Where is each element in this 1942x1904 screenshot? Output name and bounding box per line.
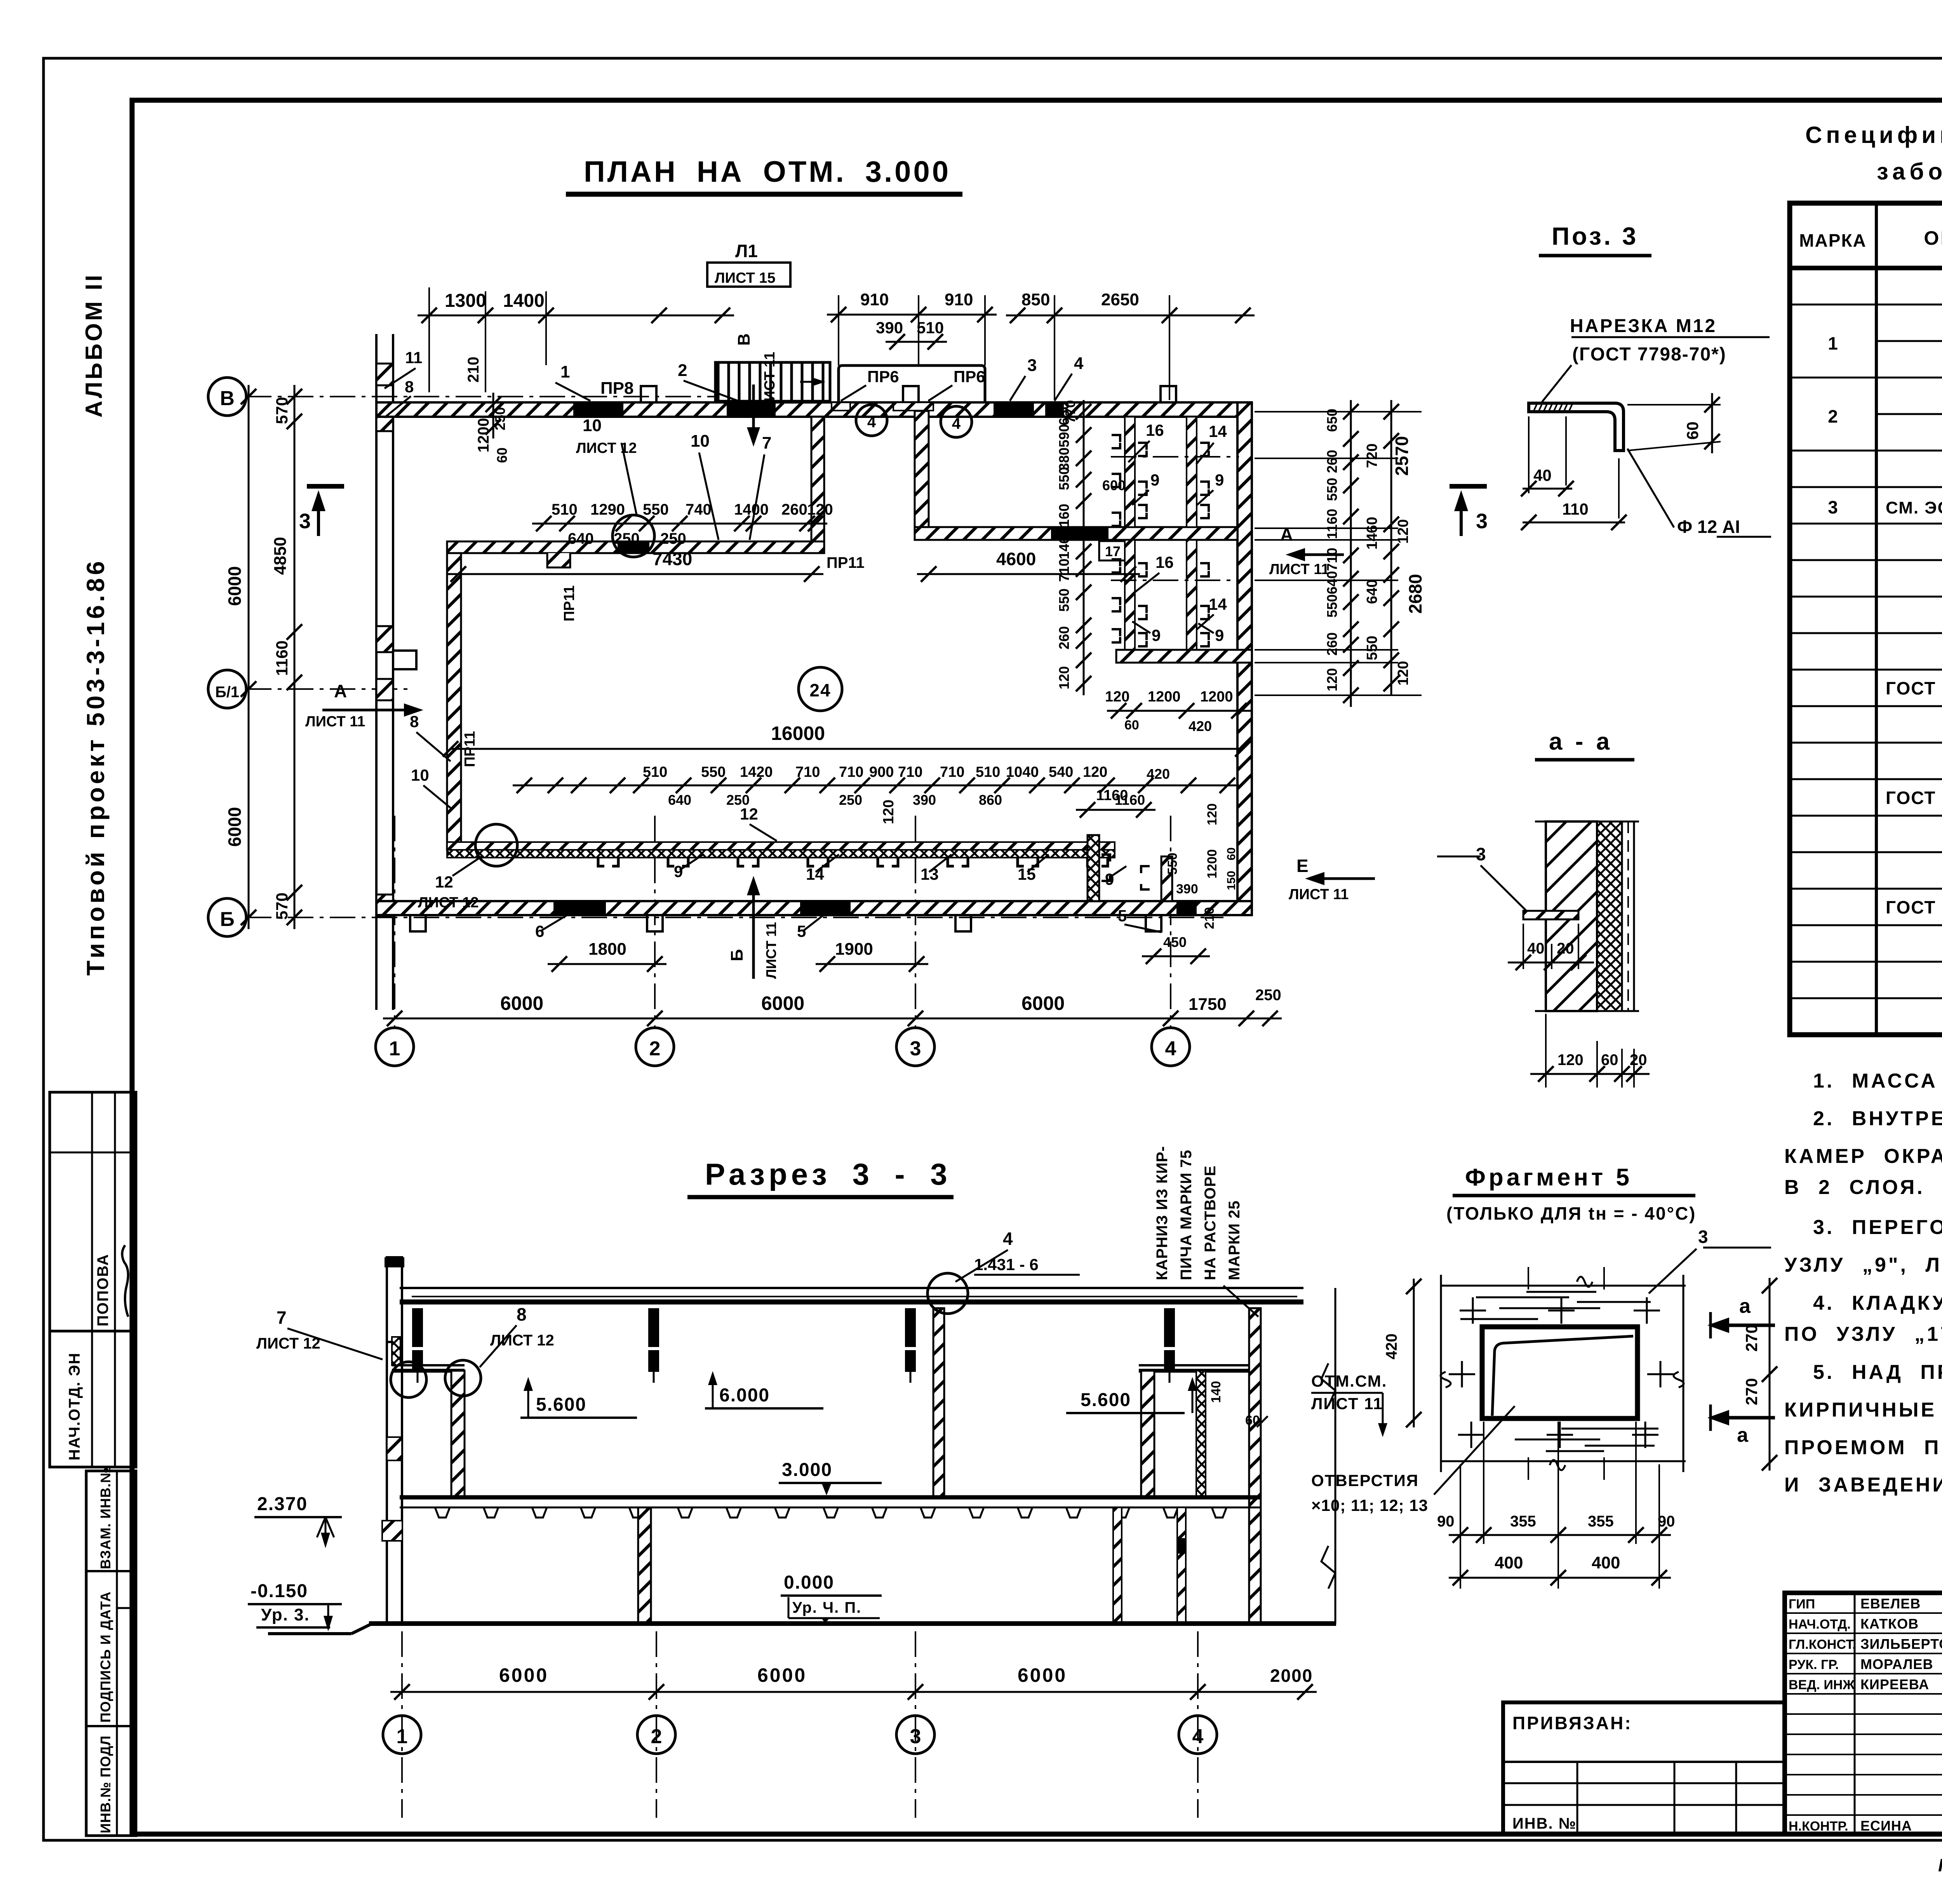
- svg-text:120: 120: [1056, 666, 1072, 689]
- svg-text:710: 710: [940, 764, 964, 780]
- fixing square bottom wall a: [410, 915, 426, 931]
- svg-text:6000: 6000: [224, 566, 245, 606]
- svg-text:1200: 1200: [1148, 689, 1181, 705]
- svg-text:260: 260: [781, 501, 807, 518]
- svg-text:270: 270: [1742, 1324, 1761, 1352]
- svg-text:6: 6: [535, 922, 544, 940]
- signature squiggle Popova: [122, 1245, 128, 1317]
- svg-text:850: 850: [1021, 290, 1050, 309]
- chamber centerline lower: [1111, 580, 1239, 581]
- svg-text:КИРПИЧНЫЕ ПЕРЕМЫЧКИ - В ЧЕ: КИРПИЧНЫЕ ПЕРЕМЫЧКИ - В ЧЕТЫРЕХ ШВАХ НАД: [1784, 1399, 1942, 1421]
- 5.600 platform right: [1139, 1364, 1249, 1366]
- label 17 box: [1099, 541, 1130, 560]
- svg-text:СМ. ЭСКИЗ, ПОЗ.3: СМ. ЭСКИЗ, ПОЗ.3: [1886, 498, 1942, 517]
- right outer wall: [1237, 402, 1252, 915]
- svg-text:ЛИСТ 11: ЛИСТ 11: [1269, 561, 1329, 578]
- svg-text:ПРОЕМОМ ПРОЛОЖИТЬ 2Ф8АI С: ПРОЕМОМ ПРОЛОЖИТЬ 2Ф8АI С КРЮКАМИ НА КОН…: [1784, 1436, 1942, 1459]
- a-a bottom cap line: [1535, 1010, 1639, 1012]
- chamber mid horizontal wall: [915, 527, 1237, 540]
- svg-text:1200: 1200: [1205, 849, 1220, 879]
- right outer wall in section: [1249, 1308, 1261, 1624]
- svg-text:710: 710: [839, 764, 863, 780]
- svg-text:1200: 1200: [1200, 689, 1233, 705]
- svg-text:710: 710: [1056, 559, 1072, 582]
- svg-text:НА РАСТВОРЕ: НА РАСТВОРЕ: [1202, 1165, 1219, 1280]
- svg-text:1460: 1460: [1364, 517, 1380, 550]
- svg-text:420: 420: [1189, 718, 1212, 734]
- svg-text:3: 3: [1828, 497, 1838, 517]
- svg-text:270: 270: [1742, 1378, 1761, 1405]
- svg-text:510: 510: [643, 764, 667, 780]
- svg-text:540: 540: [1049, 764, 1073, 780]
- svg-text:А: А: [1280, 524, 1293, 545]
- svg-text:60: 60: [494, 447, 510, 463]
- svg-text:ПР11: ПР11: [827, 554, 865, 571]
- svg-text:20: 20: [1630, 1051, 1647, 1069]
- chamber partition C upper: [1187, 417, 1197, 527]
- svg-text:ЛИСТ 12: ЛИСТ 12: [576, 440, 637, 456]
- right dim extension lines: [1255, 411, 1398, 412]
- svg-text:5.600: 5.600: [1081, 1390, 1131, 1410]
- svg-text:1: 1: [560, 362, 570, 381]
- svg-text:Ф 12 АI: Ф 12 АI: [1677, 517, 1740, 537]
- section cut mark 3 (right, up arrow): [1450, 484, 1487, 489]
- svg-text:6000: 6000: [500, 992, 543, 1014]
- section axis circle 2: [637, 1716, 675, 1754]
- svg-text:400: 400: [1495, 1553, 1523, 1572]
- svg-text:20: 20: [1557, 940, 1574, 957]
- svg-text:-0.150: -0.150: [251, 1581, 308, 1601]
- spec table column lines: [1875, 203, 1878, 1035]
- axis circle 1: [376, 1028, 414, 1066]
- svg-text:400: 400: [1592, 1553, 1620, 1572]
- right side break marks: [1321, 1363, 1335, 1589]
- svg-text:Разрез 3 - 3: Разрез 3 - 3: [705, 1157, 951, 1191]
- svg-text:120: 120: [807, 501, 833, 518]
- svg-text:3: 3: [1698, 1227, 1708, 1247]
- svg-text:10: 10: [691, 432, 710, 451]
- svg-text:3. ПЕРЕГОРОДКИ ТОЛЩИНОЙ 120М: 3. ПЕРЕГОРОДКИ ТОЛЩИНОЙ 120ММ АРМИРОВАТЬ…: [1813, 1216, 1942, 1239]
- fragment break squiggles: [1550, 1277, 1592, 1470]
- row 1/2 mid lines in oboznachenie: [1876, 340, 1942, 342]
- section axis circle 1: [383, 1716, 421, 1754]
- svg-text:КАТКОВ: КАТКОВ: [1860, 1616, 1919, 1632]
- svg-text:210: 210: [1202, 907, 1217, 929]
- svg-text:210: 210: [465, 357, 482, 383]
- svg-text:150: 150: [1225, 871, 1238, 890]
- svg-text:16: 16: [1146, 421, 1164, 439]
- svg-text:2680: 2680: [1405, 574, 1425, 614]
- a-a wall brick layer: [1546, 821, 1597, 1011]
- svg-text:ЛИСТ 15: ЛИСТ 15: [715, 270, 776, 286]
- svg-text:24: 24: [809, 680, 831, 700]
- inner wall upper horizontal: [447, 541, 824, 553]
- svg-text:1460: 1460: [1056, 528, 1072, 559]
- roof support blobs at columns: [412, 1308, 423, 1347]
- svg-text:550: 550: [1056, 588, 1072, 612]
- chamber teeth marks: [1138, 443, 1147, 456]
- svg-text:1420: 1420: [740, 764, 773, 780]
- svg-text:ЗИЛЬБЕРТОВ: ЗИЛЬБЕРТОВ: [1860, 1636, 1942, 1652]
- bracket angle piece: [1529, 403, 1624, 451]
- svg-text:9: 9: [1150, 471, 1159, 489]
- svg-text:а: а: [1739, 1295, 1751, 1317]
- svg-text:7430: 7430: [653, 549, 692, 569]
- svg-text:90: 90: [1437, 1513, 1455, 1530]
- floor ribs: [435, 1507, 450, 1518]
- inner vertical wall (room right): [811, 417, 824, 541]
- svg-text:250: 250: [614, 530, 640, 547]
- svg-text:8: 8: [405, 378, 414, 396]
- svg-text:910: 910: [945, 290, 973, 309]
- left wall door ledge at axis B/1: [393, 651, 416, 669]
- small wall piece left of platform: [392, 1337, 400, 1365]
- svg-text:МОРАЛЕВ: МОРАЛЕВ: [1860, 1656, 1933, 1672]
- svg-text:2650: 2650: [1101, 290, 1139, 309]
- svg-text:9: 9: [1215, 471, 1224, 489]
- svg-text:3: 3: [299, 510, 311, 533]
- svg-text:120: 120: [1324, 668, 1340, 691]
- svg-text:ЛИСТ 11: ЛИСТ 11: [763, 922, 779, 979]
- svg-text:550: 550: [1364, 636, 1380, 660]
- svg-text:ЛИСТ 11: ЛИСТ 11: [1311, 1394, 1383, 1413]
- room number circle 24: [799, 667, 842, 711]
- svg-text:6000: 6000: [761, 992, 804, 1014]
- top outer wall: [376, 402, 1252, 417]
- svg-text:4: 4: [1165, 1037, 1176, 1060]
- left wall below parapet: [386, 1342, 388, 1624]
- svg-text:250: 250: [660, 530, 686, 547]
- section axis circle 3: [896, 1716, 934, 1754]
- svg-text:10: 10: [583, 416, 602, 435]
- svg-text:3: 3: [1476, 510, 1488, 533]
- title block outline: [1785, 1593, 1942, 1834]
- leader from cornice note: [1223, 1286, 1258, 1317]
- margin stamp table 2 (inv no / podpis): [86, 1471, 136, 1836]
- svg-text:ЛИСТ 11: ЛИСТ 11: [305, 714, 365, 730]
- fixing square bottom wall b: [647, 915, 663, 931]
- svg-text:2: 2: [651, 1725, 662, 1748]
- svg-text:ЛИСТ 12: ЛИСТ 12: [490, 1332, 554, 1349]
- lintel PR8 no.2: [727, 402, 776, 417]
- section axis circle 4: [1179, 1716, 1217, 1754]
- bottom-right chamber wall a: [1088, 835, 1099, 901]
- svg-text:ПР8: ПР8: [600, 379, 633, 398]
- svg-text:860: 860: [979, 792, 1002, 808]
- svg-text:ЕВЕЛЕВ: ЕВЕЛЕВ: [1860, 1596, 1921, 1612]
- svg-text:Н.КОНТР.: Н.КОНТР.: [1789, 1819, 1848, 1834]
- svg-text:4: 4: [1074, 354, 1084, 373]
- lintel 4 in mid wall: [1051, 527, 1108, 540]
- svg-text:заборных камер воздуха: заборных камер воздуха: [1877, 158, 1942, 184]
- svg-text:3: 3: [1476, 844, 1486, 864]
- svg-text:600: 600: [1102, 477, 1126, 493]
- svg-text:2: 2: [649, 1037, 661, 1060]
- svg-text:640: 640: [568, 530, 594, 547]
- svg-text:420: 420: [1383, 1333, 1400, 1359]
- svg-text:ГОСТ 22950- 78: ГОСТ 22950- 78: [1886, 788, 1942, 808]
- svg-text:НАЧ.ОТД.: НАЧ.ОТД.: [1789, 1617, 1851, 1632]
- a-a insulation layer (crosshatch): [1597, 821, 1622, 1011]
- svg-text:4: 4: [1192, 1725, 1204, 1748]
- svg-text:140: 140: [1209, 1381, 1223, 1403]
- svg-text:Б: Б: [727, 949, 747, 961]
- svg-text:8: 8: [517, 1304, 527, 1324]
- svg-text:ПР6: ПР6: [867, 367, 899, 386]
- svg-text:6000: 6000: [757, 1664, 807, 1686]
- svg-text:16000: 16000: [771, 722, 825, 744]
- svg-text:ОБОЗНАЧЕНИЕ: ОБОЗНАЧЕНИЕ: [1924, 227, 1942, 249]
- svg-text:В 2 СЛОЯ.: В 2 СЛОЯ.: [1784, 1176, 1925, 1199]
- inner vertical wall left: [447, 553, 461, 850]
- lintel no.6 (bottom): [553, 901, 606, 915]
- svg-text:КАМЕР ОКРАСИТЬ ВОДОЭМУЛЬСИ: КАМЕР ОКРАСИТЬ ВОДОЭМУЛЬСИОННОЙ КРАСКОЙ: [1784, 1145, 1942, 1168]
- section roof slab lines: [400, 1287, 1303, 1289]
- svg-text:1800: 1800: [588, 940, 626, 959]
- left outer wall: [375, 334, 378, 1010]
- axis B (letter Б) horizontal: [246, 917, 1223, 918]
- svg-text:9: 9: [1105, 870, 1114, 888]
- svg-text:Б: Б: [220, 908, 234, 931]
- svg-text:250: 250: [1255, 987, 1281, 1004]
- svg-text:640: 640: [668, 792, 691, 808]
- svg-text:НАЧ.ОТД. ЭН: НАЧ.ОТД. ЭН: [66, 1352, 83, 1460]
- svg-text:ГИП: ГИП: [1789, 1597, 1815, 1612]
- fragment brick course dashes bottom: [1534, 1417, 1627, 1419]
- svg-text:0.000: 0.000: [784, 1572, 834, 1593]
- svg-text:450: 450: [1163, 934, 1187, 950]
- svg-text:120: 120: [1083, 764, 1107, 780]
- svg-text:250: 250: [726, 792, 750, 808]
- svg-text:×10; 11; 12; 13: ×10; 11; 12; 13: [1311, 1496, 1428, 1514]
- lintel no.5 (bottom): [800, 901, 851, 915]
- svg-text:а: а: [1737, 1424, 1749, 1446]
- svg-text:5. НАД ПРОЕМАМИ МЕНЕЕ 9: 5. НАД ПРОЕМАМИ МЕНЕЕ 900 ММ УСТРОИТЬ АР…: [1813, 1361, 1942, 1384]
- svg-text:110: 110: [1562, 500, 1589, 518]
- 5.600 platform left: [392, 1364, 465, 1366]
- axis V (letter B) horizontal: [246, 396, 738, 397]
- fixing square bottom wall c: [955, 915, 971, 931]
- svg-text:1: 1: [397, 1725, 408, 1748]
- svg-text:Типовой проект 503-3-16.86: Типовой проект 503-3-16.86: [82, 558, 110, 976]
- svg-text:ЛИСТ 11: ЛИСТ 11: [1289, 886, 1349, 903]
- svg-text:17: 17: [1105, 543, 1121, 559]
- svg-text:3: 3: [910, 1725, 921, 1748]
- svg-text:1040: 1040: [1006, 764, 1039, 780]
- svg-text:120: 120: [1205, 803, 1220, 825]
- svg-text:ВЕД. ИНЖ: ВЕД. ИНЖ: [1789, 1678, 1855, 1692]
- svg-text:ПО УЗЛУ „17" СЕРИИ 1. 431: ПО УЗЛУ „17" СЕРИИ 1. 431 - 6.: [1784, 1323, 1942, 1345]
- svg-text:510: 510: [976, 764, 1000, 780]
- partition under 5.600 right: [1141, 1371, 1154, 1497]
- chamber centerline upper: [1111, 456, 1239, 458]
- lintel in inner wall: [618, 541, 649, 553]
- fragment opening rect: [1482, 1327, 1637, 1418]
- svg-text:910: 910: [860, 290, 889, 309]
- svg-text:720: 720: [1364, 444, 1380, 468]
- a-a top cap line: [1535, 821, 1639, 823]
- fixing square bottom wall d: [1146, 915, 1161, 931]
- svg-text:9: 9: [674, 862, 683, 881]
- svg-text:ПР6: ПР6: [954, 367, 985, 386]
- chamber partition B lower: [1125, 540, 1135, 650]
- svg-text:9: 9: [1152, 626, 1161, 644]
- svg-text:6000: 6000: [224, 807, 245, 847]
- svg-text:6000: 6000: [1018, 1664, 1067, 1686]
- svg-text:ПЛАН НА ОТМ. 3.000: ПЛАН НА ОТМ. 3.000: [584, 155, 951, 188]
- ground line: [369, 1621, 1336, 1626]
- svg-text:1. МАССА ДАНА ОДНОГО МЕТРА: 1. МАССА ДАНА ОДНОГО МЕТРА.: [1813, 1070, 1942, 1092]
- svg-text:ОТВЕРСТИЯ: ОТВЕРСТИЯ: [1311, 1471, 1419, 1490]
- svg-text:5: 5: [797, 922, 806, 940]
- svg-text:60: 60: [1124, 718, 1139, 733]
- svg-text:14: 14: [1209, 422, 1227, 440]
- axis 4 vertical: [1170, 816, 1171, 1028]
- fragment cross marks: [1460, 1297, 1486, 1324]
- detail circle 12 list 12: [475, 824, 517, 866]
- svg-text:550: 550: [1324, 478, 1340, 501]
- svg-text:ГЛ.КОНСТ.: ГЛ.КОНСТ.: [1789, 1637, 1856, 1652]
- left parapet column: [387, 1257, 402, 1342]
- svg-text:1: 1: [389, 1037, 400, 1060]
- svg-text:60: 60: [1225, 848, 1238, 860]
- axis circle 2: [636, 1028, 674, 1066]
- svg-text:16: 16: [1155, 553, 1174, 571]
- svg-text:6000: 6000: [499, 1664, 548, 1686]
- detail circle at parapet: [391, 1362, 426, 1398]
- svg-text:4850: 4850: [271, 537, 290, 575]
- svg-text:420: 420: [1147, 766, 1170, 782]
- svg-text:8: 8: [410, 712, 419, 731]
- svg-text:ПИЧА МАРКИ 75: ПИЧА МАРКИ 75: [1178, 1150, 1195, 1280]
- svg-text:120: 120: [881, 800, 897, 824]
- dim 40: [1528, 416, 1530, 493]
- svg-text:710: 710: [1324, 548, 1340, 571]
- svg-text:550: 550: [701, 764, 726, 780]
- svg-text:1900: 1900: [835, 940, 873, 959]
- axis circle B: [208, 898, 246, 936]
- svg-text:570: 570: [273, 397, 291, 424]
- svg-text:ПР11: ПР11: [561, 585, 578, 621]
- partition under 5.600 left: [451, 1371, 465, 1497]
- svg-text:Л1: Л1: [735, 241, 758, 261]
- svg-text:710: 710: [898, 764, 922, 780]
- fixing square on top wall a: [641, 386, 656, 402]
- svg-text:2: 2: [1828, 406, 1838, 426]
- fragment outer dim box: [1441, 1285, 1686, 1287]
- svg-text:900: 900: [869, 764, 894, 780]
- svg-text:7: 7: [762, 433, 771, 453]
- svg-text:3.000: 3.000: [782, 1460, 832, 1480]
- svg-text:ГОСТ 8486- 66**: ГОСТ 8486- 66**: [1886, 897, 1942, 917]
- circled 4 a: [856, 405, 887, 436]
- tambour pad b: [893, 402, 933, 411]
- svg-text:ЕСИНА: ЕСИНА: [1860, 1818, 1912, 1834]
- svg-text:260: 260: [1324, 632, 1340, 656]
- detail circle at platform left: [445, 1360, 481, 1396]
- svg-text:АЛЬБОМ II: АЛЬБОМ II: [81, 273, 107, 418]
- svg-text:5.600: 5.600: [536, 1394, 586, 1415]
- svg-text:390: 390: [876, 318, 903, 337]
- axis 3 vertical: [915, 816, 916, 1028]
- lower partitions: [638, 1507, 651, 1624]
- svg-text:Ур. Ч. П.: Ур. Ч. П.: [792, 1599, 861, 1616]
- svg-text:И ЗАВЕДЕНИЕМ ЗА ГРАНИ ОПОР: И ЗАВЕДЕНИЕМ ЗА ГРАНИ ОПОР НЕ МЕНЕЕ 250 …: [1784, 1474, 1942, 1496]
- svg-text:550: 550: [1324, 594, 1340, 618]
- svg-text:260: 260: [1324, 450, 1340, 473]
- a-a wooden plug bar: [1523, 911, 1578, 919]
- circled 4 b: [941, 406, 972, 437]
- svg-text:12: 12: [435, 873, 453, 891]
- svg-text:ЛИСТ 12: ЛИСТ 12: [256, 1335, 320, 1352]
- svg-text:1290: 1290: [590, 501, 625, 518]
- svg-text:1400: 1400: [503, 291, 545, 311]
- spec table header bottom line: [1790, 266, 1942, 270]
- svg-text:1: 1: [1828, 333, 1838, 353]
- svg-text:ПОДПИСЬ И ДАТА: ПОДПИСЬ И ДАТА: [97, 1591, 113, 1723]
- axis B/1 horizontal: [246, 688, 412, 690]
- svg-text:1300: 1300: [445, 291, 486, 311]
- axis 1 vertical: [394, 816, 395, 1028]
- lintel no.4: [1045, 402, 1064, 417]
- svg-text:ПОПОВА: ПОПОВА: [94, 1253, 111, 1326]
- svg-text:1160: 1160: [1324, 509, 1340, 539]
- title block left extension privyazan: [1503, 1702, 1785, 1834]
- fixing square on top wall c: [1161, 386, 1176, 402]
- svg-text:Поз. 3: Поз. 3: [1552, 222, 1638, 250]
- svg-text:1200: 1200: [475, 418, 492, 453]
- lintel PR8 no.1: [573, 402, 623, 417]
- svg-text:2: 2: [678, 361, 687, 380]
- svg-text:640: 640: [1324, 571, 1340, 594]
- svg-text:Копировала: Сысоева Сидос: Копировала: Сысоева Сидос: [1938, 1855, 1942, 1875]
- svg-text:6.000: 6.000: [719, 1385, 770, 1406]
- svg-text:355: 355: [1588, 1513, 1614, 1530]
- svg-text:9: 9: [1215, 626, 1224, 644]
- dim 60 (leg height): [1627, 404, 1721, 406]
- svg-text:1400: 1400: [734, 501, 769, 518]
- svg-text:ИНВ.№ ПОДЛ: ИНВ.№ ПОДЛ: [97, 1735, 113, 1833]
- section cut mark 3 (left, up arrow): [307, 484, 344, 489]
- svg-text:590: 590: [1056, 424, 1072, 447]
- svg-text:510: 510: [917, 318, 944, 337]
- svg-text:2.370: 2.370: [257, 1494, 308, 1514]
- svg-text:Фрагмент 5: Фрагмент 5: [1465, 1164, 1632, 1191]
- small partition right2: [1196, 1371, 1206, 1497]
- stair strip L1: [715, 362, 830, 401]
- svg-text:ЛИСТ 11: ЛИСТ 11: [762, 352, 778, 412]
- tambour bump outline: [839, 365, 985, 402]
- svg-text:3: 3: [910, 1037, 921, 1060]
- svg-text:НАРЕЗКА М12: НАРЕЗКА М12: [1570, 316, 1717, 336]
- svg-text:Ур. 3.: Ур. 3.: [261, 1605, 310, 1624]
- anchor teeth marks on partition: [598, 858, 618, 866]
- svg-text:Е: Е: [1296, 856, 1309, 876]
- bottom-right chamber wall b: [1161, 856, 1172, 901]
- chamber block bottom band: [1116, 650, 1252, 663]
- svg-text:1750: 1750: [1189, 995, 1227, 1014]
- section axis stubs: [401, 1631, 403, 1818]
- svg-text:УЗЛУ „9", ЛИСТ 12.: УЗЛУ „9", ЛИСТ 12.: [1784, 1254, 1942, 1276]
- svg-text:355: 355: [1510, 1513, 1536, 1530]
- svg-text:120: 120: [1395, 661, 1411, 686]
- svg-text:2570: 2570: [1392, 436, 1412, 476]
- left dim chain inner (570/4850/1160/570): [294, 385, 296, 929]
- svg-text:А: А: [334, 681, 347, 701]
- svg-text:4600: 4600: [996, 549, 1036, 569]
- svg-text:14: 14: [1209, 595, 1227, 613]
- svg-text:5: 5: [1118, 907, 1127, 925]
